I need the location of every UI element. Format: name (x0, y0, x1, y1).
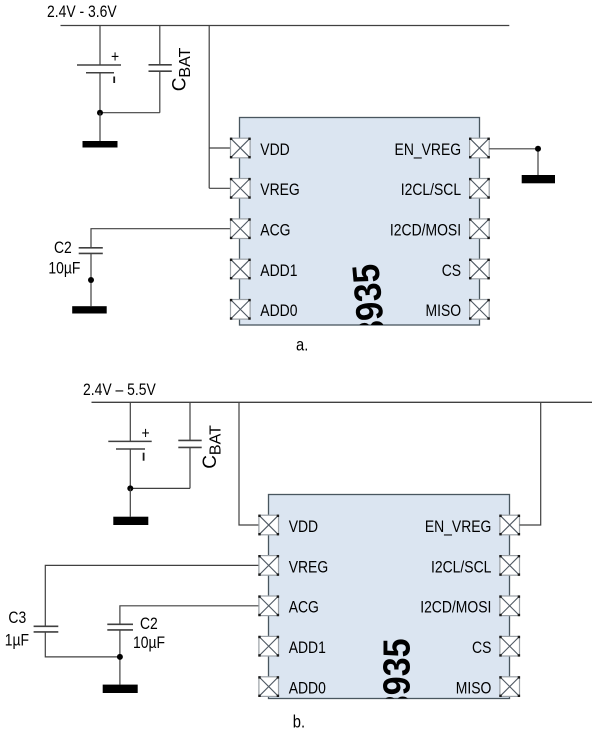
wire: rail B to VDD pin (239, 402, 259, 525)
svg-text:b.: b. (293, 712, 305, 732)
svg-text:EN_VREG: EN_VREG (425, 518, 492, 537)
wire: battery B drop from rail (129, 402, 131, 441)
wire: junction to ground B1 (129, 488, 131, 516)
pin MISO (a) (469, 299, 490, 320)
wire: C2 B bottom lead (119, 630, 121, 685)
svg-text:a.: a. (296, 335, 308, 355)
wire: battery A drop from rail (99, 26, 101, 65)
svg-text:I2CD/MOSI: I2CD/MOSI (390, 221, 461, 240)
pin CS (b) (499, 636, 520, 657)
battery BT1 (diagram b) (108, 441, 151, 449)
wire: CBAT B drop from rail (189, 402, 191, 440)
node: junction battery B (127, 485, 133, 491)
svg-text:10µF: 10µF (48, 259, 80, 278)
label 3935 (diagram b, rotated, clipped) (374, 638, 417, 714)
svg-text:MISO: MISO (425, 302, 461, 321)
pin I2CD/MOSI (b) (499, 595, 520, 616)
wire: CBAT A drop from rail (159, 26, 161, 65)
label 3935 (diagram a, rotated, clipped) (344, 262, 394, 341)
IC U1 3935 (diagram b) (269, 495, 510, 699)
pin ADD1 (b) (258, 636, 279, 657)
node: junction C2/C3 B (117, 654, 123, 660)
battery A minus label (113, 77, 115, 84)
svg-text:I2CL/SCL: I2CL/SCL (431, 558, 492, 577)
svg-text:EN_VREG: EN_VREG (395, 141, 462, 160)
svg-text:1µF: 1µF (5, 631, 29, 650)
pin CS (a) (469, 259, 490, 280)
wire: power rail A (61, 25, 510, 27)
svg-text:ADD0: ADD0 (260, 302, 297, 321)
wire: C3 bottom to junction (45, 632, 120, 657)
svg-text:10µF: 10µF (133, 634, 165, 653)
svg-text:ACG: ACG (260, 221, 290, 240)
svg-text:C2: C2 (54, 239, 72, 258)
svg-text:ADD1: ADD1 (260, 262, 297, 281)
node: junction C2 A (88, 277, 94, 283)
ground A1 (battery) (83, 141, 118, 148)
pin VREG (b) (258, 555, 279, 576)
svg-text:CS: CS (442, 262, 461, 281)
pin I2CD/MOSI (a) (469, 218, 490, 239)
svg-text:CBAT: CBAT (169, 47, 194, 91)
pin ADD0 (b) (258, 676, 279, 697)
svg-text:CBAT: CBAT (200, 425, 225, 469)
svg-text:2.4V – 5.5V: 2.4V – 5.5V (83, 381, 156, 400)
capacitor C2 (diagram b) (107, 624, 133, 630)
pin ACG (a) (230, 218, 251, 239)
wire: ACG pin B to C2 (120, 606, 259, 624)
wire: battery B to CBAT B bottom link (130, 487, 190, 489)
pin ADD0 (a) (230, 299, 251, 320)
wire: CBAT B bottom lead (189, 447, 191, 488)
svg-text:C3: C3 (8, 609, 26, 628)
wire: branch to VDD pin A (209, 147, 230, 149)
wire: battery A bottom lead (99, 73, 101, 113)
wire: EN_VREG A to ground (489, 149, 538, 175)
svg-text:3935: 3935 (374, 638, 417, 714)
svg-text:C2: C2 (140, 615, 158, 634)
node: junction battery A (97, 110, 103, 116)
wire: battery A to CBAT A bottom link (100, 112, 160, 114)
pin VDD (b) (258, 515, 279, 536)
wire: ACG pin A to C2 (91, 229, 231, 248)
pin I2CL/SCL (a) (469, 178, 490, 199)
svg-text:VREG: VREG (289, 558, 328, 577)
svg-text:I2CL/SCL: I2CL/SCL (401, 181, 462, 200)
wire: branch to VREG pin A (209, 187, 230, 189)
battery B minus label (143, 453, 145, 461)
IC U1 3935 (diagram a) (240, 118, 480, 326)
wire: EN_VREG B to rail (520, 402, 541, 525)
svg-text:ADD1: ADD1 (289, 639, 326, 658)
wire: CBAT A bottom lead (159, 71, 161, 113)
capacitor C3 (diagram b) (34, 626, 59, 632)
svg-text:+: + (111, 48, 119, 67)
ground A3 (EN_VREG) (522, 175, 555, 183)
capacitor CBAT (diagram b) (178, 440, 201, 447)
svg-text:I2CD/MOSI: I2CD/MOSI (420, 598, 491, 617)
pin EN_VREG (b) (499, 515, 520, 536)
wire: power rail B (92, 401, 593, 403)
capacitor C2 (diagram a) (79, 248, 103, 254)
svg-text:VDD: VDD (289, 518, 318, 537)
wire: VREG pin B to C3 (45, 565, 259, 626)
svg-text:VDD: VDD (260, 141, 289, 160)
ground A2 (C2) (72, 306, 107, 313)
svg-text:2.4V - 3.6V: 2.4V - 3.6V (47, 3, 117, 22)
svg-text:MISO: MISO (456, 679, 492, 698)
pin ACG (b) (258, 595, 279, 616)
ground B1 (battery) (113, 517, 148, 525)
wire: junction to ground A1 (99, 113, 101, 141)
svg-text:ADD0: ADD0 (289, 679, 326, 698)
ground B2 (C2) (103, 685, 138, 693)
svg-text:ACG: ACG (289, 598, 319, 617)
pin VREG (a) (230, 178, 251, 199)
wire: C2 A bottom lead (90, 253, 92, 306)
svg-text:+: + (142, 424, 150, 443)
node: EN_VREG A corner dot (535, 146, 541, 152)
pin VDD (a) (230, 138, 251, 159)
wire: battery B bottom lead (129, 449, 131, 488)
pin MISO (b) (499, 676, 520, 697)
svg-text:3935: 3935 (344, 262, 394, 341)
wire: VDD/VREG supply drop A (208, 26, 210, 189)
capacitor CBAT (diagram a) (149, 65, 172, 71)
svg-text:CS: CS (472, 639, 491, 658)
battery BT1 (diagram a) (77, 65, 121, 73)
pin EN_VREG (a) (469, 138, 490, 159)
pin I2CL/SCL (b) (499, 555, 520, 576)
svg-text:VREG: VREG (260, 181, 299, 200)
pin ADD1 (a) (230, 259, 251, 280)
